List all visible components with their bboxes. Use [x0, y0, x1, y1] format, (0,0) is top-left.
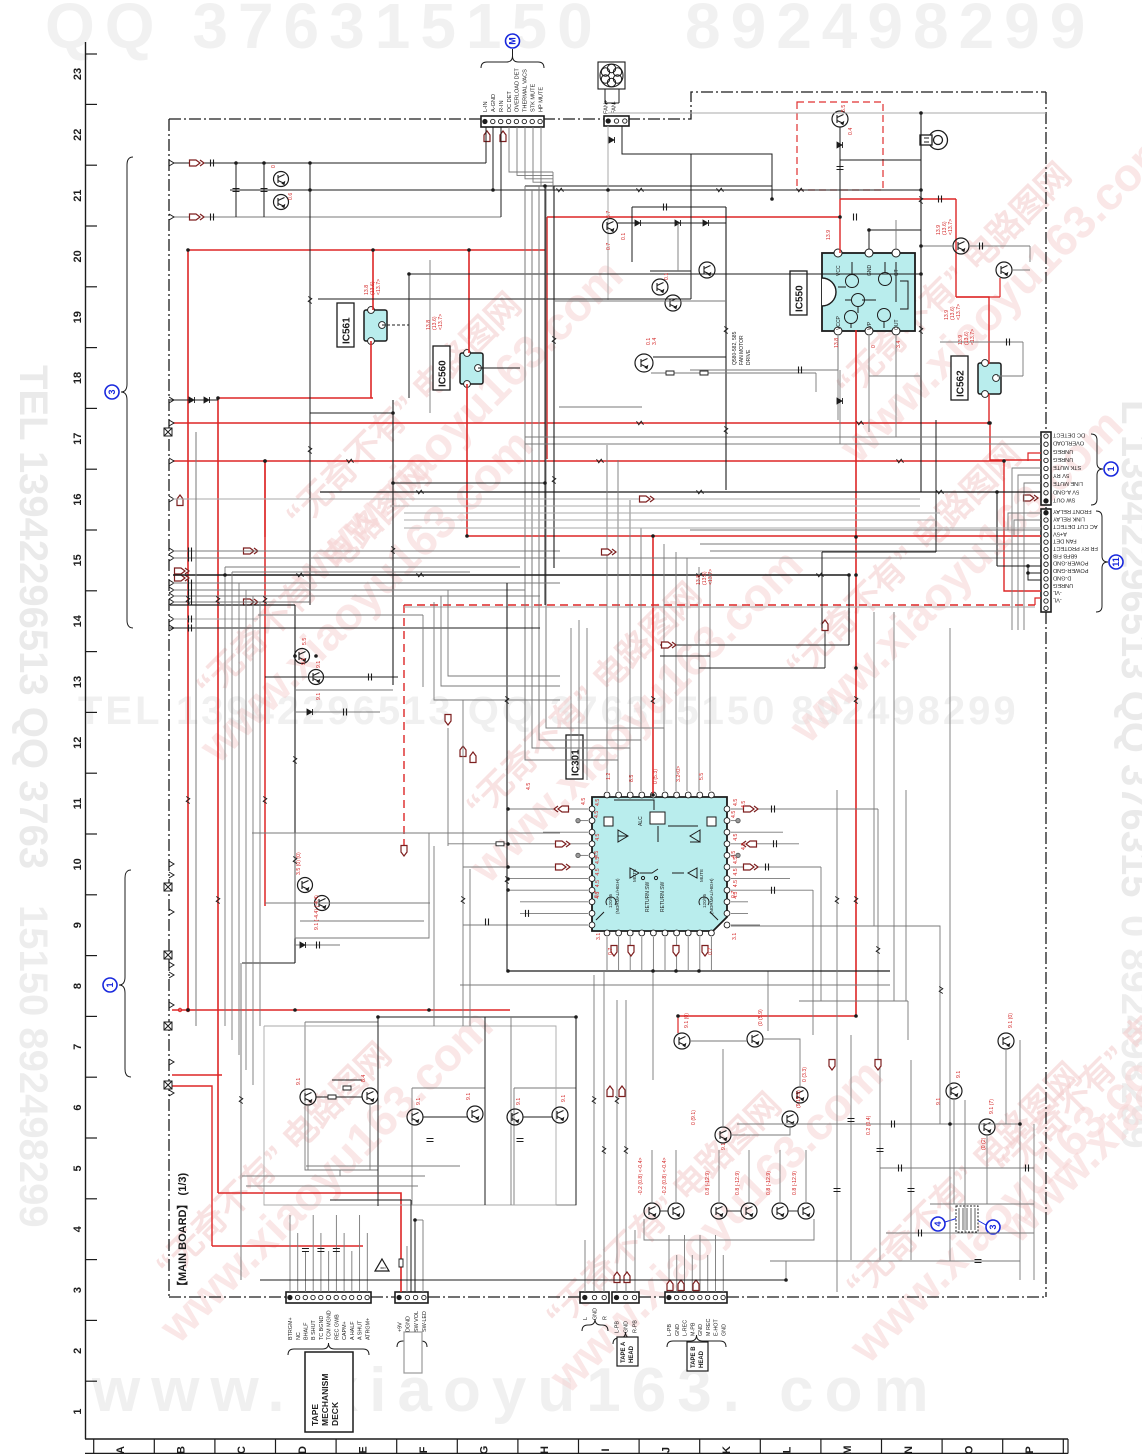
capacitor [908, 1189, 915, 1192]
wire IC301 right pin [731, 820, 738, 822]
wire IC301 right pin [731, 889, 813, 891]
junction [919, 188, 923, 192]
svg-text:<13.7>: <13.7> [708, 569, 714, 585]
svg-text:L-IN: L-IN [483, 101, 489, 112]
junction [293, 1008, 297, 1012]
wire tape-mech pin [351, 1251, 353, 1292]
svg-text:D-GND: D-GND [1053, 574, 1071, 580]
wire [404, 512, 940, 514]
wire IC301 bottom pin [618, 937, 620, 971]
IC550 pin GND [865, 249, 873, 257]
connector CN1 right [1041, 432, 1051, 505]
IC550 pin CT [892, 249, 900, 257]
wire [770, 1260, 1020, 1262]
wire [559, 406, 642, 408]
wire (dashed) [382, 324, 409, 326]
board outline top-left [169, 118, 482, 120]
transistor Q6b [315, 896, 330, 911]
wire (red dashed) [403, 605, 405, 845]
svg-text:9.1: 9.1 [316, 661, 322, 668]
svg-text:13.8: 13.8 [834, 338, 840, 348]
signal arrow R-IN [190, 214, 205, 220]
IC301 bottom pins [604, 930, 714, 936]
wire [295, 689, 393, 691]
resistor [697, 573, 704, 577]
capacitor [799, 367, 802, 374]
resistor [835, 897, 839, 904]
svg-text:DGND: DGND [406, 1316, 412, 1332]
svg-text:<13.7>: <13.7> [948, 219, 954, 235]
transistor Q8 [362, 1088, 378, 1104]
signal arrow R-IN [500, 131, 506, 142]
svg-text:6BFB F/B: 6BFB F/B [1053, 552, 1078, 558]
wire [690, 1040, 747, 1042]
diode [307, 709, 313, 715]
svg-text:13: 13 [72, 676, 84, 688]
svg-text:0 (3.3): 0 (3.3) [802, 1067, 808, 1082]
svg-text:0.8 (-12.9): 0.8 (-12.9) [766, 1171, 772, 1195]
connector tape B head [665, 1292, 727, 1303]
wire fan sense [607, 126, 609, 300]
junction [506, 877, 510, 881]
resistor [857, 421, 864, 425]
svg-text:FAN DET: FAN DET [1052, 538, 1076, 544]
wire [886, 1232, 1034, 1234]
svg-text:0.7: 0.7 [608, 948, 614, 955]
wire [727, 1210, 741, 1212]
ruler tick [86, 1076, 98, 1078]
svg-text:8.5: 8.5 [629, 775, 635, 782]
watermark diagonal [960, 870, 1142, 1253]
capacitor [1026, 1165, 1029, 1172]
transistor Q row [772, 1203, 788, 1219]
svg-text:5.5: 5.5 [302, 638, 308, 645]
enclosure box [412, 1088, 485, 1205]
svg-text:5V A-GND: 5V A-GND [1053, 488, 1079, 494]
wire fan- [622, 126, 772, 199]
ruler tick [86, 225, 98, 227]
junction [506, 865, 510, 869]
wire tape-mech pin [328, 1251, 330, 1292]
capacitor [975, 1260, 982, 1263]
svg-text:1: 1 [105, 982, 115, 987]
svg-text:4.5: 4.5 [733, 833, 739, 840]
svg-text:<13.7>: <13.7> [438, 314, 444, 330]
input node [169, 1090, 174, 1096]
wire IC301 right pin [731, 912, 748, 914]
ruler tick [275, 1439, 277, 1454]
svg-text:HP MUTE: HP MUTE [538, 87, 544, 112]
ruler tick [1062, 1439, 1064, 1454]
tape B head box [687, 1342, 708, 1371]
junction [1026, 571, 1030, 575]
svg-text:L: L [583, 1317, 589, 1320]
ruler tick [86, 1380, 98, 1382]
wire [422, 615, 424, 687]
resistor [461, 897, 465, 904]
svg-text:4.5: 4.5 [733, 868, 739, 875]
svg-text:0.7: 0.7 [606, 243, 612, 250]
resistor [308, 447, 312, 454]
wire IC301 top pin [629, 500, 631, 791]
resistor [817, 573, 824, 577]
svg-text:4.5: 4.5 [595, 833, 601, 840]
note ref 3 [105, 385, 119, 399]
svg-text:6: 6 [72, 1105, 84, 1111]
wire [895, 336, 897, 437]
ruler tick [86, 1137, 98, 1139]
junction [784, 1278, 788, 1282]
wire [294, 944, 340, 946]
resistor [343, 1086, 351, 1090]
svg-text:IC562: IC562 [956, 370, 967, 397]
ruler tick [153, 1439, 155, 1454]
ruler tick [86, 347, 98, 349]
wire IC301 top pin [675, 552, 677, 791]
wire [410, 1200, 412, 1292]
wire IC301 top pin [709, 572, 711, 791]
key/loop symbol [920, 131, 948, 150]
ruler tick [396, 1439, 398, 1454]
wire tape B pin [691, 1255, 693, 1292]
signal arrow pb L [554, 806, 569, 812]
svg-text:P: P [1024, 1446, 1036, 1453]
svg-text:VCCP: VCCP [836, 315, 842, 330]
wire tape-mech pin [366, 1233, 368, 1292]
junction [308, 161, 312, 165]
input node [169, 616, 174, 622]
svg-text:-0.2 (0.8) <-0.4>: -0.2 (0.8) <-0.4> [638, 1158, 644, 1196]
ruler tick [86, 833, 98, 835]
svg-text:TCM MGND: TCM MGND [327, 1310, 333, 1340]
svg-text:+9V: +9V [397, 1322, 403, 1332]
svg-text:OVERLOAD DET: OVERLOAD DET [515, 68, 521, 112]
capacitor [317, 942, 320, 949]
wire [415, 1219, 423, 1221]
svg-text:A-GND: A-GND [491, 94, 497, 112]
wire [785, 1261, 787, 1280]
wire [634, 1230, 636, 1292]
wire (red) [677, 1016, 679, 1033]
svg-text:LINE MUTE: LINE MUTE [1053, 480, 1083, 486]
wire [839, 127, 841, 199]
wire [848, 575, 850, 645]
svg-text:L 13942296513 QQ 376315: L 13942296513 QQ 376315 [1113, 400, 1142, 897]
svg-text:DC DET: DC DET [507, 91, 513, 112]
svg-text:IC301: IC301 [571, 749, 582, 776]
signal arrow [742, 841, 757, 847]
svg-text:9.1: 9.1 [301, 658, 307, 665]
resistor [897, 459, 904, 463]
svg-text:(0 (2): (0 (2) [981, 1137, 987, 1150]
wire [552, 172, 554, 190]
junction [467, 248, 471, 252]
resistor [216, 897, 220, 904]
svg-text:(NORMAL/HIGH): (NORMAL/HIGH) [615, 878, 620, 914]
svg-text:21: 21 [72, 189, 84, 201]
capacitor [848, 1119, 855, 1122]
connector tape-mech control [286, 1292, 371, 1303]
wire [880, 1167, 1034, 1169]
svg-text:9.1: 9.1 [936, 1098, 942, 1105]
connector CN2 right [1041, 509, 1051, 612]
wire CN pin bundle [509, 127, 553, 172]
brace tape B [667, 1335, 726, 1347]
wire [869, 375, 921, 377]
resistor [417, 573, 424, 577]
svg-text:120/95: 120/95 [702, 894, 707, 908]
diode [204, 397, 210, 403]
connector power/sw [395, 1292, 428, 1303]
wire CN pin bundle [517, 127, 553, 175]
signal arrow [175, 575, 190, 581]
transistor Q (in dashed box) [832, 111, 848, 127]
wire (red) [840, 198, 956, 200]
wire rail (red) [264, 461, 266, 906]
signal arrow [667, 1280, 673, 1291]
wire to IC550 (red) [547, 216, 840, 218]
amplifier IC301 body [592, 797, 727, 931]
enclosure box [514, 1088, 576, 1205]
IC550 internals [838, 262, 908, 328]
ruler tick [335, 1439, 337, 1454]
capacitor [189, 548, 192, 555]
svg-text:H: H [539, 1446, 551, 1454]
svg-text:SW OUT: SW OUT [1052, 496, 1075, 502]
signal arrow [702, 946, 708, 957]
node (crossed box) [164, 428, 172, 436]
svg-text:0: 0 [871, 345, 877, 348]
svg-text:B SHUT: B SHUT [311, 1320, 317, 1340]
wire [242, 962, 295, 964]
wire IC301 gnd bus [508, 970, 890, 972]
wire [173, 601, 310, 603]
wire [242, 1175, 425, 1177]
ruler tick [86, 651, 98, 653]
ruler tick [699, 1439, 701, 1454]
signal arrow [470, 752, 476, 763]
signal arrow L-IN [484, 131, 490, 142]
wire IC550 CT [895, 220, 897, 249]
wire [310, 412, 393, 414]
resistor [297, 573, 304, 577]
svg-text:FAN-: FAN- [612, 101, 618, 114]
junction [651, 793, 655, 797]
capacitor [369, 674, 372, 681]
capacitor [211, 214, 214, 221]
junction [919, 111, 923, 115]
resistor [308, 297, 312, 304]
wire [173, 618, 258, 620]
ruler tick [638, 1439, 640, 1454]
svg-text:(NORMAL/HIGH): (NORMAL/HIGH) [709, 878, 714, 914]
capacitor [189, 555, 192, 562]
signal arrow [744, 864, 759, 870]
junction [263, 459, 267, 463]
junction [1002, 459, 1006, 463]
svg-text:FAN+: FAN+ [604, 100, 610, 114]
transistor Q13 [674, 1033, 690, 1049]
wire [799, 1000, 908, 1002]
wire [232, 571, 470, 573]
capacitor [189, 625, 192, 632]
capacitor [517, 1139, 524, 1142]
svg-text:3: 3 [988, 1224, 998, 1229]
svg-text:J: J [660, 1447, 672, 1453]
ruler tick [759, 1439, 761, 1454]
capacitor [189, 599, 192, 606]
wire STK MUTE [1012, 468, 1041, 630]
wire to IC301 [539, 186, 641, 791]
junction [988, 421, 992, 425]
svg-text:19: 19 [72, 311, 84, 323]
wire [225, 566, 520, 568]
transistor Q1 [274, 172, 289, 187]
junction [838, 215, 842, 219]
wire long to tape head [603, 971, 605, 1292]
wire (red dash-dot start) [178, 1008, 181, 1011]
capacitor [854, 214, 857, 221]
board outline right edge [1045, 92, 1047, 1297]
transistor Q row [711, 1203, 727, 1219]
wire [893, 612, 895, 1001]
svg-text:TAPE A: TAPE A [621, 1341, 627, 1363]
signal arrow [619, 1086, 625, 1097]
svg-text:UNREG: UNREG [1053, 456, 1073, 462]
wire IC301 right pin [731, 901, 748, 903]
IC550 label [790, 271, 807, 315]
svg-text:0 (9.1): 0 (9.1) [691, 1110, 697, 1125]
svg-text:9.1: 9.1 [956, 1071, 962, 1078]
svg-text:Q580-582, 585: Q580-582, 585 [732, 331, 738, 365]
svg-text:R: R [602, 1316, 608, 1320]
svg-text:15150 892498299: 15150 892498299 [11, 905, 55, 1228]
wire [868, 336, 870, 376]
resistor [592, 1097, 596, 1104]
wire IC301 top pin [663, 544, 665, 791]
node (crossed box) [164, 1022, 172, 1030]
svg-text:C: C [236, 1446, 248, 1454]
svg-text:SW-LED: SW-LED [422, 1311, 428, 1332]
resistor [597, 459, 604, 463]
svg-text:GND: GND [698, 1324, 704, 1336]
capacitor [189, 593, 192, 600]
resistor [293, 857, 297, 864]
wire [265, 676, 398, 678]
wire (red) [172, 1074, 222, 1076]
junction [234, 161, 238, 165]
wire [873, 612, 875, 926]
junction [491, 188, 495, 192]
wire tape B pin [699, 1235, 701, 1292]
tape A head box [617, 1337, 638, 1366]
wire vertical [820, 867, 822, 1001]
wire IC301 bottom pin [606, 937, 608, 971]
wire line out L [584, 1240, 586, 1292]
wire (red) [956, 296, 1000, 298]
terminal [576, 818, 580, 822]
wire IC301 bottom pin [641, 937, 643, 971]
signal arrow L-IN [190, 160, 205, 166]
node (crossed box) [164, 951, 172, 959]
ruler tick [86, 468, 98, 470]
svg-text:K: K [721, 1446, 733, 1454]
capacitor [317, 1249, 324, 1252]
svg-text:9.1: 9.1 [466, 1093, 472, 1100]
left ruler line [85, 42, 87, 1439]
signal arrow [607, 1086, 613, 1097]
svg-text:0.7: 0.7 [708, 948, 714, 955]
svg-text:9.1 (7): 9.1 (7) [989, 1099, 995, 1114]
svg-text:1: 1 [72, 1409, 84, 1415]
wire [404, 527, 1041, 529]
resistor [624, 1147, 628, 1154]
svg-text:4.5: 4.5 [595, 868, 601, 875]
wire to IC301 [525, 186, 618, 791]
wire [631, 207, 633, 262]
wire IC301 left pin [508, 878, 588, 880]
transistor Q2 [274, 195, 289, 210]
wire tape-mech pin [312, 1215, 314, 1292]
wire [173, 589, 525, 591]
transistor Q fan 4 [635, 354, 653, 372]
watermark diagonal [750, 370, 1133, 753]
ruler tick [86, 1319, 98, 1321]
wire tape B pin [668, 1235, 670, 1292]
wire bundle [259, 602, 261, 1026]
wire [300, 920, 424, 922]
wire [265, 902, 430, 904]
svg-text:11: 11 [1111, 557, 1121, 567]
svg-text:F: F [418, 1446, 430, 1453]
svg-text:CAPM+: CAPM+ [342, 1321, 348, 1340]
svg-text:WP: WP [867, 321, 873, 330]
wire (red) [546, 217, 548, 459]
IC301 top pins [604, 792, 714, 798]
resistor [919, 327, 923, 334]
junction [854, 1014, 858, 1018]
junction [223, 573, 227, 577]
wire R-IN row [174, 216, 501, 218]
tape mechanism deck box [305, 1352, 353, 1432]
svg-text:LINK RELAY: LINK RELAY [1053, 516, 1085, 522]
resistor [666, 371, 674, 375]
IC301 right pins [724, 806, 730, 928]
wire IC301 bottom pin [629, 937, 631, 971]
transistor Q6 [996, 262, 1012, 278]
wire below IC301 [460, 984, 890, 986]
svg-text:RETURN SW: RETURN SW [660, 881, 666, 912]
resistor [615, 1097, 619, 1104]
svg-text:14: 14 [72, 614, 84, 627]
resistor [263, 597, 267, 604]
wire [964, 1100, 966, 1233]
wire [170, 399, 218, 401]
svg-text:5: 5 [72, 1165, 84, 1171]
wire IC301 bottom pin [676, 937, 678, 971]
capacitor [892, 1121, 895, 1128]
wire [690, 369, 838, 371]
wire [779, 1150, 781, 1203]
wire IC301 right pin [731, 808, 878, 810]
resistor [700, 371, 708, 375]
wire [332, 1079, 362, 1081]
ruler tick [86, 1198, 98, 1200]
transistor Q row [741, 1203, 757, 1219]
wire IC301 right pin [731, 831, 783, 833]
wire [748, 1150, 750, 1203]
svg-text:L-PB: L-PB [615, 1321, 621, 1333]
